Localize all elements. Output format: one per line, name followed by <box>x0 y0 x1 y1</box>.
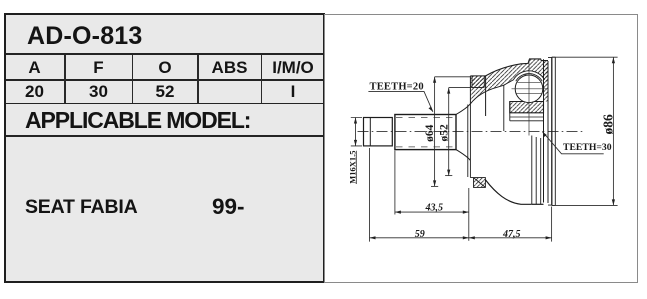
flange notch top hatch <box>472 76 484 88</box>
dim o86 line <box>612 57 614 205</box>
dim shared center extension <box>468 188 470 241</box>
arrow o86 bottom <box>612 199 615 205</box>
drawing panel border <box>325 15 638 283</box>
dim 59 line + 47,5 line <box>370 237 552 239</box>
header ABS <box>198 58 261 78</box>
M16 label underline <box>356 151 358 184</box>
svg-text:ø86: ø86 <box>601 114 616 135</box>
boot flange outline <box>470 76 485 116</box>
ball vertical centerline <box>528 61 530 136</box>
boot ring top/bottom faces <box>552 57 556 205</box>
bell outer profile top <box>486 59 548 76</box>
bell bottom edge segment <box>532 203 544 205</box>
part number AD-O-813 <box>27 22 143 51</box>
value O 52 <box>132 82 198 102</box>
dim o52 line <box>448 88 450 176</box>
boot flange notch bottom <box>470 178 485 188</box>
spline shaft body <box>395 115 456 150</box>
header F <box>65 58 132 78</box>
race right edge <box>543 88 545 121</box>
arrow teeth20 leader <box>429 107 433 112</box>
bell inner mouth curve top <box>470 85 504 104</box>
bell mouth rim verticals <box>468 104 471 177</box>
table v-line col ABS|I/M/O <box>261 55 263 103</box>
svg-text:59: 59 <box>415 229 425 240</box>
centerline axis <box>358 131 585 133</box>
ball (bearing) <box>515 75 543 103</box>
cage center tick <box>525 74 533 76</box>
table h-line under part number row <box>6 53 323 55</box>
bell wall strip left edge <box>543 59 545 202</box>
dim teeth20 leader underline <box>368 91 433 111</box>
dim o52 bottom foot <box>445 175 452 177</box>
arrow teeth30 leader <box>542 132 547 137</box>
bell wall hatched section <box>470 59 548 104</box>
table v-line col F|O <box>132 55 134 103</box>
cage outer arc <box>504 71 545 85</box>
arrow o64 top <box>433 77 436 83</box>
step to boot ring top/bottom <box>548 57 552 205</box>
header I/M/O <box>261 58 325 78</box>
svg-text:TEETH=30: TEETH=30 <box>563 142 612 153</box>
table v-line col A|F <box>64 55 66 103</box>
arrow 47,5 left <box>469 236 475 239</box>
svg-text:TEETH=20: TEETH=20 <box>370 81 424 92</box>
bell inner mouth curve bottom <box>469 160 471 177</box>
table h-line under applicable model row <box>6 135 323 137</box>
svg-text:ø52: ø52 <box>438 124 450 142</box>
dim 43,5 left extension <box>394 151 396 215</box>
cage inner arc <box>516 74 542 82</box>
spline root dashed line bottom <box>396 146 455 148</box>
arrow M16 top <box>354 118 357 124</box>
dim o86 bottom extension <box>552 204 618 206</box>
boot ring groove lines <box>554 57 556 205</box>
thread shoulder line <box>369 118 371 146</box>
svg-text:ø64: ø64 <box>424 124 436 142</box>
dim M16X1.5 extension ticks <box>351 118 362 146</box>
svg-text:M16X1.5: M16X1.5 <box>347 151 357 184</box>
arrow o52 top <box>447 88 450 94</box>
table h-line under values row <box>6 103 323 105</box>
ball horizontal centerline <box>512 88 547 90</box>
table panel background <box>4 13 325 283</box>
arrow o52 bottom <box>447 170 450 176</box>
value I/M/O I <box>261 82 325 102</box>
arrow 59 right <box>463 236 469 239</box>
dim o64 bottom foot <box>431 185 438 187</box>
table h-line under header row <box>6 79 323 81</box>
shaft-to-bell fillet bottom <box>456 150 470 161</box>
dim o52 top extension <box>449 87 481 89</box>
arrow M16 bottom <box>354 140 357 146</box>
cavity left edge <box>503 85 505 131</box>
model year 99- <box>212 194 245 220</box>
spline root dashed line top <box>396 116 455 118</box>
value F 30 <box>65 82 132 102</box>
boot flange notch top <box>472 76 484 88</box>
shaft-to-bell fillet top <box>456 104 470 115</box>
bell silhouette groove lines bottom half <box>532 136 541 205</box>
model name SEAT FABIA <box>25 196 137 219</box>
dim o86 top extension <box>552 56 618 58</box>
inner race hatched block <box>510 102 544 113</box>
arrow o64 bottom <box>433 180 436 186</box>
race left edge <box>509 102 511 121</box>
bell wall strip right edge <box>547 61 549 203</box>
flange notch bottom hatch <box>474 178 486 188</box>
boot ring end face <box>551 57 553 205</box>
dim 59 left extension <box>369 148 371 242</box>
bell outer profile bottom <box>485 180 531 205</box>
header O <box>132 58 198 78</box>
dim M16X1.5 line <box>355 118 357 146</box>
ball cage window chords <box>517 82 542 93</box>
race bore line <box>510 117 544 121</box>
arrow 47,5 right <box>546 236 552 239</box>
arrow 43,5 left <box>395 211 401 214</box>
value A 20 <box>4 82 65 102</box>
svg-text:43,5: 43,5 <box>425 202 444 213</box>
dim 43,5 line <box>395 211 469 213</box>
right wall hatched strip <box>544 61 549 102</box>
svg-text:47,5: 47,5 <box>502 229 521 240</box>
dim 47,5 right extension <box>551 207 553 242</box>
header A <box>4 58 65 78</box>
dim o64 top extension <box>435 76 471 78</box>
arrow 59 left <box>370 236 376 239</box>
table v-line col O|ABS <box>197 55 199 103</box>
threaded stub shaft <box>364 118 393 146</box>
arrow 43,5 right <box>463 211 469 214</box>
arrow o86 top <box>612 57 615 63</box>
applicable model label <box>25 107 250 134</box>
dim o64 line <box>434 77 436 187</box>
dim teeth30 leader underline <box>542 132 603 154</box>
